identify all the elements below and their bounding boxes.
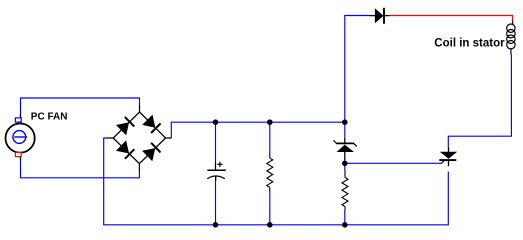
junction node bottom rail / C1 xyxy=(213,222,219,228)
motor M1 positive terminal box xyxy=(15,118,21,122)
wire zener D2 cathode node to resistor R2 xyxy=(344,160,346,171)
wire SCR2 anode to coil xyxy=(448,54,511,148)
junction node plus rail / R1 xyxy=(267,119,273,125)
bridge rectifier diamond frame xyxy=(107,105,172,171)
wire plus rail up to diode D1 and down to zener D2 xyxy=(345,16,370,138)
bridge diode bottom-right xyxy=(142,143,160,161)
wire gate of SCR2 xyxy=(345,162,442,164)
junction node zener R2 gate xyxy=(342,161,348,167)
bridge diode bottom-left xyxy=(116,140,134,158)
wire bridge left vertex to bottom rail and SCR2 cathode xyxy=(104,138,449,225)
junction node bottom rail / R1 xyxy=(267,222,273,228)
bridge diode top-left xyxy=(116,117,134,135)
motor M1 PC FAN body xyxy=(6,114,35,160)
resistor R1 xyxy=(267,153,273,192)
wire cap C1 bottom xyxy=(215,180,217,224)
wire red from diode D1 to coil in stator xyxy=(389,16,512,22)
junction node plus rail / D1 branch xyxy=(342,119,348,125)
inductor L1 coil in stator xyxy=(507,21,515,54)
junction node bottom rail / R2 xyxy=(342,222,348,228)
wire cap C1 top xyxy=(215,122,217,163)
resistor R2 xyxy=(342,170,348,211)
zener diode D2 xyxy=(334,138,357,160)
wire resistor R1 bottom xyxy=(269,191,271,225)
wire resistor R2 bottom xyxy=(344,211,346,225)
wire fan bottom to bridge bottom xyxy=(21,160,140,178)
svg-text:Coil in stator: Coil in stator xyxy=(434,38,505,50)
motor M1 negative terminal box xyxy=(15,153,21,157)
bridge diode top-right xyxy=(142,115,160,133)
wire fan top to bridge top xyxy=(21,98,140,115)
diode D1 xyxy=(369,8,389,24)
svg-text:PC FAN: PC FAN xyxy=(31,111,68,122)
capacitor C1 xyxy=(207,162,225,181)
wire resistor R1 top xyxy=(269,122,271,153)
junction node plus rail / C1 xyxy=(213,119,219,125)
SCR Q1 xyxy=(439,148,457,167)
wire bridge right vertex to plus rail xyxy=(171,122,344,138)
